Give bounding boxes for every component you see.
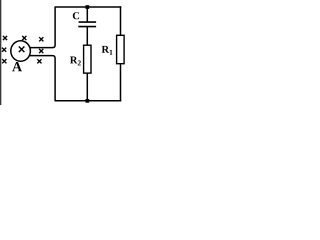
node A label: [12, 62, 22, 71]
wire left branch upper (upper slip lead to top wire): [30, 7, 55, 48]
capacitor value label C: [73, 12, 79, 19]
wire left branch lower (lower slip lead to bottom wire): [29, 56, 55, 101]
field cross mid-left: [2, 48, 6, 52]
resistor R2: [84, 45, 91, 73]
field cross top-right: [39, 37, 43, 41]
wire right lower (R1 down to bottom-right corner): [120, 64, 122, 102]
junction dot bottom: [86, 99, 90, 103]
capacitor C: [79, 21, 97, 23]
wire R2 to bottom: [86, 73, 88, 101]
field cross top-left: [3, 36, 7, 40]
R1 value label: [102, 46, 113, 55]
junction dot top: [86, 5, 90, 9]
field cross mid-right: [39, 49, 43, 53]
field cross bottom-left: [2, 59, 6, 63]
wire capacitor to R2: [86, 27, 88, 46]
generator loop circle: [11, 41, 31, 62]
field cross top-middle: [22, 36, 26, 40]
R2 value label: [70, 57, 81, 66]
field cross bottom-right: [37, 59, 41, 63]
left edge scan artifact line: [0, 0, 2, 105]
resistor R1: [117, 35, 125, 63]
capacitor C lead upper: [86, 7, 88, 22]
wire top (from left branch corner to top-right corner): [55, 6, 122, 8]
wire bottom: [55, 100, 122, 102]
wire right upper (top-right corner down to R1): [120, 6, 122, 35]
flux cross inside loop: [19, 47, 25, 53]
